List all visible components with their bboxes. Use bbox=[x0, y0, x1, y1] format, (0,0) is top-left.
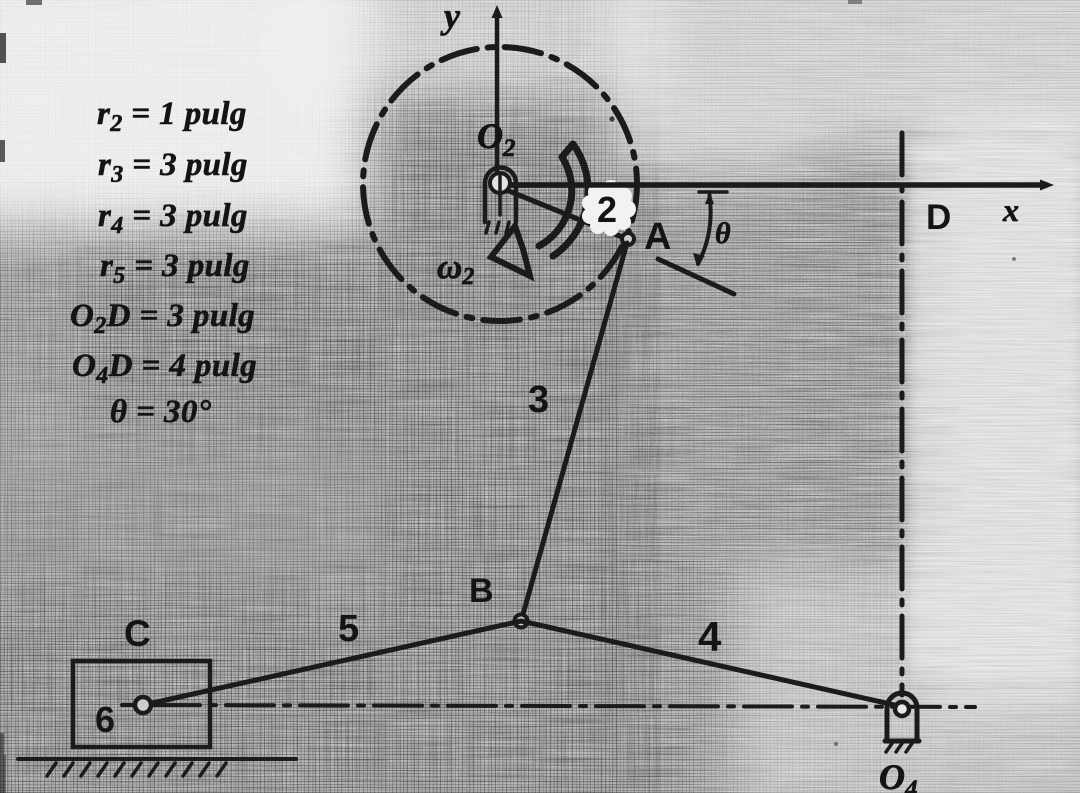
svg-text:2: 2 bbox=[597, 189, 617, 230]
svg-text:4: 4 bbox=[698, 613, 722, 660]
crank path dash-dot circle bbox=[363, 47, 637, 321]
omega2 arrowhead bbox=[491, 226, 530, 276]
x axis bbox=[508, 182, 1046, 188]
omega2 arrow top end bbox=[562, 144, 573, 157]
slider centerline dash-dot C to O4 bbox=[152, 705, 975, 707]
pivot O4 pin bbox=[895, 702, 909, 716]
theta dimension arc bbox=[698, 195, 711, 264]
joint B bbox=[515, 615, 528, 628]
svg-text:C: C bbox=[124, 613, 151, 654]
crank extension line beyond A bbox=[658, 259, 734, 294]
omega2 curved arrow inner arc bbox=[539, 157, 572, 246]
svg-text:θ: θ bbox=[715, 217, 731, 250]
svg-text:y: y bbox=[440, 0, 461, 36]
slider block 6 bbox=[73, 661, 210, 747]
svg-text:x: x bbox=[1002, 192, 1019, 228]
omega2 curved arrow outer arc bbox=[553, 144, 588, 256]
ground line under slider bbox=[18, 757, 296, 761]
pivot O4 bracket bbox=[885, 708, 919, 741]
x axis arrowhead bbox=[1040, 180, 1054, 191]
svg-text:B: B bbox=[469, 572, 494, 610]
vertical dash-dot line through D and O4 bbox=[900, 133, 905, 695]
ground hatches bbox=[47, 763, 226, 776]
pivot O4 outer cap arc bbox=[887, 693, 917, 708]
stray dash under x axis bbox=[699, 190, 727, 194]
svg-text:θ = 30°: θ = 30° bbox=[110, 394, 211, 430]
joint C pin bbox=[135, 697, 151, 713]
y axis bbox=[495, 14, 500, 182]
svg-text:D: D bbox=[926, 198, 951, 237]
joint A bbox=[622, 233, 634, 245]
link 5 C-B bbox=[148, 621, 521, 704]
svg-text:3: 3 bbox=[528, 379, 549, 421]
white cloud around link-2 label bbox=[582, 180, 636, 236]
link 3 A-B bbox=[522, 243, 627, 618]
svg-text:6: 6 bbox=[95, 699, 115, 740]
pivot O2 support bracket bbox=[485, 167, 516, 222]
pivot O2 ground hatches bbox=[486, 222, 509, 233]
svg-text:5: 5 bbox=[338, 608, 359, 650]
pivot O2 pin bbox=[490, 173, 510, 193]
parameter text list bbox=[70, 96, 257, 430]
svg-text:A: A bbox=[644, 216, 671, 258]
pivot O4 ground hatches bbox=[886, 742, 913, 752]
link 2 crank O2-A bbox=[504, 189, 627, 239]
link 4 B-O4 bbox=[521, 621, 899, 706]
joint C short stub bbox=[122, 703, 136, 707]
y axis arrowhead bbox=[492, 5, 503, 18]
